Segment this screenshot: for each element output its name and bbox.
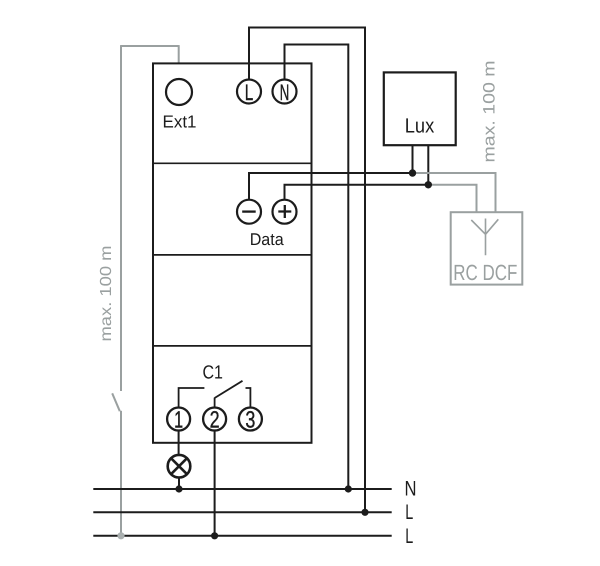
svg-text:max. 100 m: max. 100 m: [481, 61, 499, 163]
divider: section line 2: [153, 254, 312, 256]
junction: dot Lux lead 2 / plus line: [425, 181, 432, 188]
junction: N wire on N bus: [345, 485, 352, 492]
device U1: time switch body outline: [153, 63, 312, 442]
terminal 2: [203, 408, 226, 431]
wire: terminal 1 down to lamp: [178, 431, 180, 455]
wire: grey Data minus extension to RC DCF antenna: [413, 173, 496, 212]
junction: lamp on N bus: [175, 485, 182, 492]
svg-text:N: N: [280, 80, 290, 105]
net: N bus: [93, 488, 391, 490]
terminal N: [273, 80, 297, 104]
junction: grey Ext line dot on bottom L bus: [117, 532, 124, 539]
wire: contact 1 riser: [179, 388, 205, 408]
svg-text:RC DCF: RC DCF: [453, 260, 517, 285]
svg-text:Ext1: Ext1: [163, 112, 197, 132]
sensor: Lux box: [384, 72, 456, 145]
wire: grey Ext1 input, left vertical run (upper): [120, 46, 122, 391]
symbol: plus cross: [278, 205, 291, 218]
svg-text:L: L: [405, 525, 413, 548]
svg-text:C1: C1: [202, 362, 223, 383]
net: L bus (bottom): [93, 535, 391, 537]
junction: dot Lux lead 1 / minus line: [409, 169, 416, 176]
svg-text:N: N: [405, 478, 417, 501]
antenna module: RC DCF box: [451, 212, 523, 284]
wire: Data minus terminal to Lux lead 1: [249, 173, 413, 200]
antenna: symbol: [471, 219, 498, 256]
wire: grey Ext1 input, vertical drop to terminal Ext1: [178, 45, 180, 80]
terminal Ext1: [166, 79, 192, 105]
junction: terminal 2 wire on bottom L bus: [211, 532, 218, 539]
symbol: minus bar: [242, 210, 256, 212]
wire: lamp down to N bus: [178, 478, 180, 490]
svg-text:Data: Data: [250, 230, 285, 249]
lamp E1: load symbol: [168, 455, 191, 478]
terminal 1: [167, 408, 190, 431]
wire: grey Ext1 input, top horizontal segment: [120, 45, 179, 47]
svg-text:max. 100 m: max. 100 m: [98, 246, 115, 342]
terminal Data plus: [273, 200, 297, 224]
wire: contact 3 riser: [246, 388, 251, 408]
wire: terminal N up and over to N bus (right vertical): [285, 45, 349, 490]
svg-text:3: 3: [245, 406, 255, 432]
switch: external push-button contact in grey Ext1 line: [112, 393, 120, 411]
svg-text:1: 1: [174, 406, 183, 432]
wire: Lux lead 1 (down to minus line): [412, 145, 414, 173]
svg-text:L: L: [405, 501, 413, 524]
junction: L wire on middle L bus: [361, 509, 368, 516]
net: L bus (middle): [93, 511, 391, 513]
svg-text:Lux: Lux: [405, 115, 435, 138]
wire: grey Data plus extension to RC DCF antenna: [428, 185, 476, 212]
switch C1: blade: [215, 381, 243, 398]
wire: terminal 2 down to bottom L bus: [214, 431, 216, 536]
svg-text:L: L: [245, 80, 254, 105]
divider: section line 1: [153, 162, 312, 164]
terminal L: [237, 80, 261, 104]
wire: Lux lead 2 (down to plus line): [427, 145, 429, 185]
wire: contact 2 stub: [214, 398, 216, 408]
wire: Data plus terminal to Lux lead 2: [285, 185, 429, 200]
terminal 3: [239, 408, 262, 431]
wire: terminal L up and over to L bus (right vertical): [249, 28, 365, 513]
svg-text:2: 2: [210, 406, 220, 432]
terminal Data minus: [237, 200, 261, 224]
divider: section line 3: [153, 345, 312, 347]
wire: grey Ext1 input, lower vertical run to bottom L bus: [120, 411, 122, 536]
